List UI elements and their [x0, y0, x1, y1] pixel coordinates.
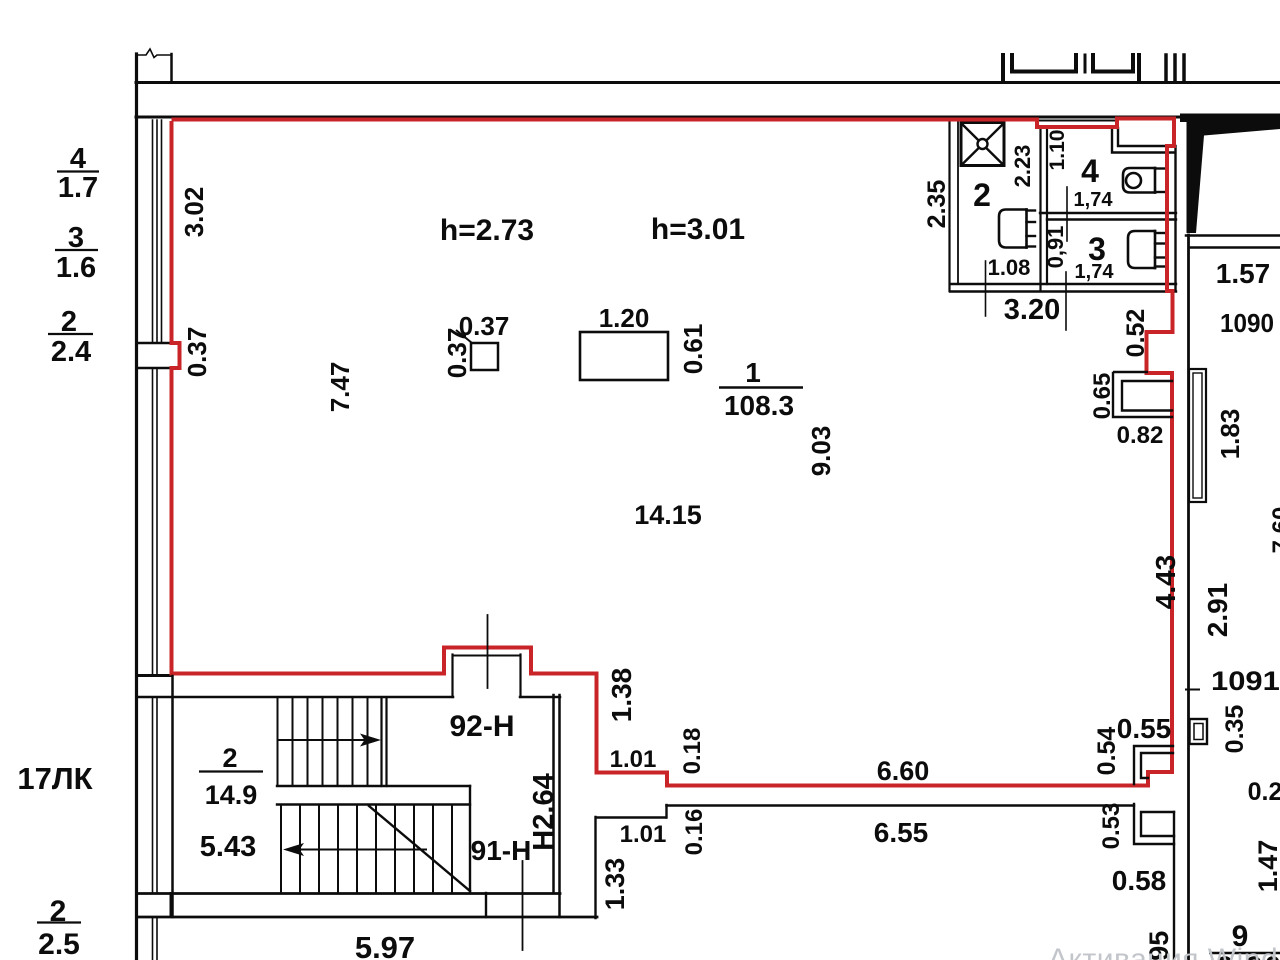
wall between room4 and room3, line a: [1040, 212, 1176, 214]
lower flight arrow: [299, 849, 426, 851]
vent shaft symbol v1: [1001, 55, 1005, 81]
stair top wall line right part: [520, 696, 560, 699]
stair top wall line left part: [137, 696, 453, 699]
svg-text:1: 1: [745, 357, 761, 388]
svg-text:2.35: 2.35: [923, 180, 951, 229]
svg-text:0.52: 0.52: [1122, 309, 1150, 358]
right lower second wall line: [1173, 812, 1175, 960]
wall between room4 and room3, line b: [1047, 218, 1176, 220]
svg-text:0.58: 0.58: [1112, 865, 1167, 896]
stairwell right wall line b: [558, 695, 561, 917]
svg-text:14.15: 14.15: [634, 500, 702, 530]
wall between room2 and rooms 3-4, line b: [1046, 127, 1048, 284]
svg-text:2: 2: [973, 177, 991, 213]
svg-text:6.55: 6.55: [874, 817, 929, 848]
wall bottom chord: [136, 116, 1186, 119]
toilet room4: [1123, 168, 1155, 193]
svg-text:3.02: 3.02: [179, 187, 209, 238]
band divider b: [485, 893, 487, 917]
right small window square outer: [1190, 719, 1208, 744]
right wall corner tick: [1186, 689, 1199, 691]
svg-text:1090: 1090: [1220, 308, 1274, 338]
right small window square inner: [1194, 724, 1203, 740]
vent shaft v3: [1137, 55, 1141, 81]
upper flight steps: [277, 698, 279, 786]
bathroom bottom wall upper line: [950, 283, 1176, 285]
lower flight steps: [280, 805, 282, 893]
svg-text:92-Н: 92-Н: [449, 710, 514, 743]
niche 0.65 top black: [1113, 371, 1148, 373]
vestibule right line: [594, 817, 596, 918]
bottom wall band top line: [137, 892, 560, 895]
left wall window glazing lines bottom: [152, 918, 154, 960]
leader line 0.37: [456, 330, 472, 343]
0.55 niche inner: [1141, 753, 1173, 778]
vent shaft v2: [1084, 55, 1087, 72]
red boundary of unit 92-N: [172, 119, 1175, 786]
left wall window glazing lines lower: [152, 698, 154, 893]
niche top-right outer: [1112, 128, 1174, 153]
bar 4/1.7: [57, 170, 99, 172]
svg-text:0.18: 0.18: [679, 728, 706, 775]
vent shaft U2: [1093, 55, 1133, 72]
svg-text:1.10: 1.10: [1046, 130, 1069, 171]
fraction bars: [37, 172, 1280, 954]
svg-text:5.43: 5.43: [200, 831, 256, 863]
right wall vertical: [1187, 235, 1190, 960]
svg-text:0.28: 0.28: [1248, 778, 1280, 806]
room2 left wall outer: [948, 120, 950, 291]
witness line door 92-N: [487, 615, 489, 688]
svg-text:Н2.64: Н2.64: [528, 773, 560, 850]
svg-text:1.83: 1.83: [1215, 409, 1245, 460]
svg-text:1.33: 1.33: [600, 858, 630, 911]
svg-text:1,74: 1,74: [1075, 261, 1115, 283]
svg-text:0.35: 0.35: [1221, 705, 1249, 754]
neighbor slab lines right: [1186, 234, 1280, 237]
landing edges: [277, 785, 470, 787]
0.53 niche inner: [1141, 812, 1174, 836]
bar 9/990: [1209, 952, 1280, 955]
witness line 91-N: [522, 861, 524, 950]
svg-text:14.9: 14.9: [205, 780, 258, 810]
svg-text:7.47: 7.47: [325, 362, 355, 413]
svg-text:5.97: 5.97: [355, 930, 415, 960]
wall top chord: [136, 81, 1280, 84]
svg-text:h=2.73: h=2.73: [440, 214, 534, 247]
svg-text:2.5: 2.5: [38, 928, 80, 960]
witness line 3.20 right: [1065, 272, 1067, 330]
0.55 niche outer: [1134, 746, 1173, 784]
svg-text:Активация Wind: Активация Wind: [1048, 943, 1278, 960]
stairwell left inner wall: [171, 676, 174, 917]
svg-text:0.53: 0.53: [1098, 803, 1125, 850]
lower flight right edge: [469, 786, 471, 893]
0.65 niche inner: [1122, 381, 1172, 411]
toilet room2: [999, 210, 1027, 248]
left wall window glazing lines upper: [152, 120, 154, 343]
svg-text:h=3.01: h=3.01: [651, 213, 745, 246]
svg-text:3.20: 3.20: [1004, 294, 1060, 326]
band divider a: [170, 893, 172, 917]
bottom wall band bottom line: [137, 916, 597, 919]
vent group right: [1164, 55, 1168, 81]
svg-text:0.65: 0.65: [1089, 373, 1116, 420]
svg-text:0.61: 0.61: [678, 324, 708, 375]
wall between room2 and rooms 3-4, line a: [1039, 127, 1041, 291]
svg-text:2.91: 2.91: [1202, 583, 1233, 638]
svg-text:2.4: 2.4: [51, 336, 91, 368]
shower tray: [961, 123, 1004, 166]
upper flight arrow: [278, 739, 366, 741]
svg-text:2.23: 2.23: [1010, 145, 1035, 188]
svg-text:1.01: 1.01: [620, 821, 667, 848]
svg-text:6.60: 6.60: [877, 756, 930, 786]
svg-text:1.6: 1.6: [56, 252, 96, 284]
stairwell right wall line a: [552, 695, 555, 893]
bar 2/14.9: [199, 770, 263, 772]
svg-text:0.37: 0.37: [442, 328, 472, 379]
svg-text:0.37: 0.37: [182, 327, 212, 378]
6.55 line: [667, 804, 1135, 806]
witness line 1.08: [985, 261, 987, 316]
svg-text:1.01: 1.01: [610, 746, 657, 773]
left wall pilaster box: [137, 342, 171, 345]
svg-text:1,74: 1,74: [1074, 189, 1114, 211]
svg-text:1.47: 1.47: [1253, 840, 1280, 893]
vent shaft U1: [1012, 55, 1076, 72]
svg-text:4: 4: [1081, 153, 1099, 189]
svg-text:2: 2: [222, 743, 237, 773]
svg-text:0.54: 0.54: [1093, 727, 1121, 776]
svg-text:0.16: 0.16: [681, 809, 708, 856]
svg-text:9.03: 9.03: [806, 426, 836, 477]
svg-text:4: 4: [70, 143, 86, 175]
bar 3/1.6: [55, 249, 98, 251]
svg-text:1.08: 1.08: [988, 255, 1031, 280]
door 92-N threshold: [453, 655, 521, 657]
bar 2/2.5: [37, 921, 81, 923]
svg-text:1.57: 1.57: [1216, 258, 1271, 289]
left wall sill at stair band: [137, 674, 172, 677]
left wall outer line: [135, 54, 138, 960]
svg-text:0.55: 0.55: [1117, 713, 1172, 744]
room2 left wall inner: [957, 120, 959, 284]
lower flight diagonal: [369, 806, 470, 891]
right window 1.83 outer: [1189, 369, 1206, 502]
top-left bracket with break squiggle: [137, 49, 171, 58]
bathroom top line segment: [1037, 120, 1117, 122]
0.53 niche outer: [1134, 804, 1174, 844]
svg-text:108.3: 108.3: [724, 390, 794, 421]
door 92-N jamb right: [519, 655, 521, 698]
svg-text:91-Н: 91-Н: [471, 835, 532, 866]
bathroom right black wall line: [1174, 146, 1176, 291]
door 92-N jamb left: [451, 655, 453, 698]
svg-text:1.7: 1.7: [58, 172, 98, 204]
bar 2/2.4: [48, 333, 93, 335]
left wall window glazing lines middle: [152, 368, 154, 675]
rect 1.20x0.61: [580, 332, 668, 380]
svg-text:0,91: 0,91: [1043, 226, 1068, 269]
svg-text:10917: 10917: [1211, 666, 1280, 696]
bar 1/108.3: [719, 386, 803, 389]
right window 1.83 inner: [1193, 373, 1202, 498]
0.65 niche outer: [1113, 373, 1172, 417]
black triangle shaft top right: [1180, 114, 1280, 234]
svg-text:1.38: 1.38: [606, 668, 637, 723]
svg-text:7.60: 7.60: [1268, 507, 1280, 554]
svg-text:17ЛК: 17ЛК: [17, 761, 92, 796]
bathroom bottom wall lower line: [950, 290, 1176, 292]
svg-text:1.20: 1.20: [599, 303, 650, 333]
small square 0.37: [471, 343, 498, 370]
niche top-right inner: [1118, 128, 1167, 146]
svg-text:0.82: 0.82: [1117, 422, 1164, 449]
witness line 1.74 room4: [1066, 187, 1068, 241]
toilet room3: [1128, 231, 1155, 268]
svg-text:4.43: 4.43: [1150, 555, 1181, 610]
step outline under unit: [596, 816, 666, 818]
